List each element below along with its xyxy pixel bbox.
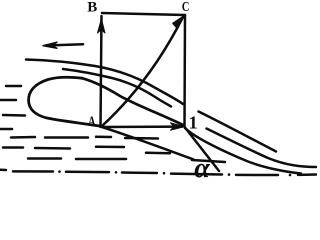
svg-text:A: A	[88, 115, 96, 130]
water dash row y137 a	[11, 136, 35, 139]
water dash row y148 b	[35, 147, 70, 150]
svg-text:C: C	[182, 0, 190, 15]
water dash row y100	[0, 99, 16, 102]
upper streamline 1	[26, 60, 183, 105]
airfoil nose loop and lower contour	[29, 77, 102, 126]
lower right streamline	[207, 129, 317, 168]
rectangle top edge B-C	[102, 13, 185, 15]
water dash row y153 d	[146, 152, 170, 155]
water dash row y147 c	[96, 146, 124, 149]
short horizontal segment at alpha vertex	[192, 160, 225, 162]
vector A to 1 bottom edge	[102, 125, 182, 128]
water dash row y86	[6, 85, 21, 88]
free stream arrow pointing left	[46, 44, 83, 45]
vector A to C diagonal (slightly bowed)	[102, 17, 184, 127]
dash-dot waterline segments	[13, 170, 53, 173]
arrowhead of A to C	[173, 16, 185, 29]
water dash row y148 a	[3, 146, 23, 149]
svg-text:α: α	[194, 153, 210, 182]
water dash row y115	[3, 114, 25, 117]
rectangle right edge C-1	[183, 15, 186, 127]
water dash row y129	[0, 128, 12, 131]
water dash row y137 c	[125, 137, 158, 140]
water dash row y158 a	[28, 157, 61, 160]
water dash row y137 d	[96, 136, 111, 139]
upper streamline 2 (short)	[63, 69, 171, 107]
small dash left edge y170	[0, 169, 6, 172]
arrowhead of A to 1	[171, 123, 185, 130]
foil surface continuation from corner to wake	[185, 128, 301, 174]
arrowhead of A to B	[98, 19, 106, 33]
svg-text:1: 1	[189, 113, 198, 133]
water dash row y137 b	[45, 136, 88, 139]
rectangle left edge / vector A to B	[101, 16, 102, 127]
steep trailing edge line from corner 1	[185, 128, 219, 172]
chord line from A	[102, 127, 194, 160]
airfoil upper surface descending into corner junction	[82, 78, 184, 125]
right streamline above 1	[199, 112, 277, 152]
water dash row y158 b	[76, 158, 126, 161]
svg-text:B: B	[87, 0, 97, 15]
